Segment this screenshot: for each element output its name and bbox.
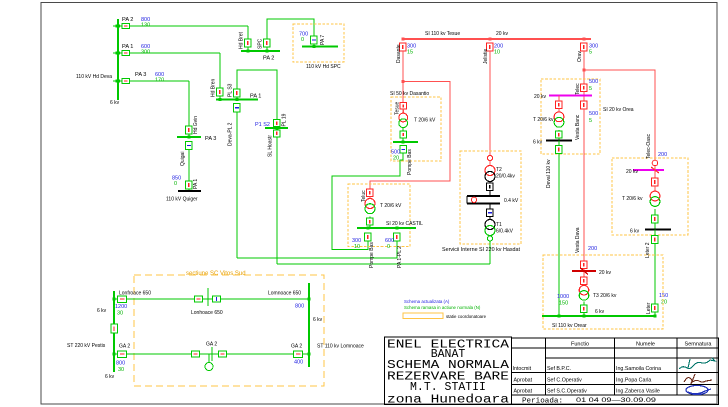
breaker Lonfroace left xyxy=(118,296,127,303)
svg-text:PA 1: PA 1 xyxy=(193,179,199,189)
breaker under transformer xyxy=(402,128,404,131)
svg-text:Ing.Zaberca Vasile: Ing.Zaberca Vasile xyxy=(616,389,660,395)
svg-text:SI 110 kv Orear: SI 110 kv Orear xyxy=(552,323,587,329)
signature Popa (brown) xyxy=(684,374,712,384)
red dash in breaker Lonfroace left xyxy=(120,298,125,300)
red dash in breaker SL Hoastr xyxy=(276,132,278,136)
wire GA 2 line xyxy=(114,353,309,355)
blue dash in breaker Lonhoace mid-right xyxy=(216,297,218,301)
transformer T1 6/0.4 xyxy=(485,220,495,230)
wire breaker to 20kv bus xyxy=(583,92,585,102)
bar 6kv Dasantio xyxy=(393,141,418,143)
wire PA3 branch xyxy=(113,80,189,82)
blue dash in breaker Deva-PL 2 xyxy=(235,107,239,109)
transformer T2 20/0.4 xyxy=(489,161,491,166)
svg-text:20: 20 xyxy=(661,300,667,306)
svg-text:T3 20/6 kv: T3 20/6 kv xyxy=(593,293,617,299)
red dash in breaker Dasante xyxy=(402,45,404,49)
red dash in breaker GA2 mid-right xyxy=(221,353,225,355)
svg-text:30: 30 xyxy=(117,310,123,316)
breaker Deval xyxy=(556,146,563,154)
svg-text:Aprobat: Aprobat xyxy=(514,389,533,395)
svg-text:Tesue: Tesue xyxy=(395,101,401,115)
breaker Orea xyxy=(581,43,588,51)
breaker Lonhoace mid-right xyxy=(213,296,221,302)
bar 110 kV Quiger (black) xyxy=(178,190,201,192)
svg-text:Telec: Telec xyxy=(575,83,581,95)
red dash in breaker Hd Bret xyxy=(247,41,249,45)
svg-text:T 20/6 kv: T 20/6 kv xyxy=(622,196,643,202)
svg-text:PA 7: PA 7 xyxy=(320,35,326,45)
blue dash in breaker Quigai xyxy=(187,145,191,147)
breaker T Orea xyxy=(556,101,563,109)
svg-text:400: 400 xyxy=(294,360,303,366)
red dash in breaker left bus xyxy=(113,327,115,332)
transformer T 20/6 Orea xyxy=(558,109,560,113)
wire SPC riser + top link to SPC station xyxy=(267,19,314,39)
svg-text:20: 20 xyxy=(393,156,399,162)
bar 0.4 kV (black, drawout) xyxy=(467,195,500,197)
svg-text:6 kv: 6 kv xyxy=(595,309,605,315)
wire SL Hoastr breaker/bar xyxy=(274,120,281,127)
table verticals xyxy=(545,338,547,395)
svg-text:Deva-PL 2: Deva-PL 2 xyxy=(228,122,234,146)
transformer T 20/6 Dasantio xyxy=(402,109,404,114)
svg-text:GA 2: GA 2 xyxy=(206,342,217,348)
breaker PA 1-PL 2 xyxy=(394,233,401,241)
svg-text:5: 5 xyxy=(589,86,592,92)
svg-text:P1 S2: P1 S2 xyxy=(255,122,270,128)
node branch 81.5 xyxy=(402,80,405,83)
svg-text:5: 5 xyxy=(589,118,592,124)
breaker Lonhoace mid-left xyxy=(195,296,203,302)
red dash in breaker PL 19 xyxy=(276,121,278,125)
node Orea xyxy=(583,38,586,41)
svg-text:30: 30 xyxy=(118,367,124,373)
breaker Teluc xyxy=(367,189,374,197)
breaker PA1 xyxy=(122,50,130,55)
wire Dasante drop + branch to CASTIL xyxy=(402,51,404,103)
svg-text:5: 5 xyxy=(589,50,592,56)
wire T1 down to line B xyxy=(489,241,491,264)
svg-text:170: 170 xyxy=(155,78,164,84)
svg-text:300: 300 xyxy=(141,50,150,56)
node PA1 bar xyxy=(219,98,222,101)
node PA3 bar xyxy=(188,136,191,139)
svg-text:SI 110 kv Tesue: SI 110 kv Tesue xyxy=(425,31,460,37)
breaker PA2 xyxy=(122,23,130,28)
svg-text:01 04 09—30.09.09: 01 04 09—30.09.09 xyxy=(576,398,657,404)
bus 20 kv Orea (magenta) xyxy=(549,95,592,97)
svg-text:sectiune SC Vitos Sud: sectiune SC Vitos Sud xyxy=(186,271,246,277)
node PA1 on bus xyxy=(116,52,121,55)
svg-text:Hd Bren: Hd Bren xyxy=(211,78,217,97)
wire breaker-to-bar stubs xyxy=(247,47,249,51)
breaker T Oasc xyxy=(652,178,659,186)
svg-text:6 kv: 6 kv xyxy=(110,100,120,106)
bus 20 kv Oasc (magenta) xyxy=(633,169,664,171)
breaker Hd Gvin xyxy=(186,126,193,134)
red dash in breaker Hasdat xyxy=(489,45,491,49)
svg-text:PA 1: PA 1 xyxy=(250,94,261,100)
breaker above T1 (black) xyxy=(489,204,491,210)
svg-text:150: 150 xyxy=(559,301,568,307)
svg-text:T 20/6 kV: T 20/6 kV xyxy=(414,118,436,124)
svg-text:ST 220 kV Pestis: ST 220 kV Pestis xyxy=(67,343,106,349)
svg-text:Hd Bret: Hd Bret xyxy=(239,31,245,49)
svg-text:800: 800 xyxy=(295,304,304,310)
svg-text:6/0.4kV: 6/0.4kV xyxy=(496,229,514,235)
wire line SL Hoastr to Hasdat T1 xyxy=(277,263,490,265)
svg-text:PA 2: PA 2 xyxy=(122,17,133,23)
breaker PL S3 xyxy=(234,89,241,97)
breaker PA3 xyxy=(122,78,130,83)
breaker SPC xyxy=(264,39,271,47)
breaker SL Hoastr lower xyxy=(274,130,281,137)
svg-text:SI 20 kv CASTIL: SI 20 kv CASTIL xyxy=(386,221,423,227)
svg-text:T2: T2 xyxy=(496,167,502,173)
svg-text:200: 200 xyxy=(658,152,667,158)
svg-text:500: 500 xyxy=(589,111,598,117)
breaker Hasdat xyxy=(487,43,494,51)
svg-text:Telec-Oasc: Telec-Oasc xyxy=(646,133,652,159)
svg-text:1000: 1000 xyxy=(557,294,569,300)
transformer T 20/6 CASTIL xyxy=(369,197,371,199)
svg-text:500: 500 xyxy=(589,79,598,85)
breaker GA2 mid-left xyxy=(192,351,200,357)
svg-text:GA 2: GA 2 xyxy=(291,344,302,350)
breaker Tesue xyxy=(400,103,407,110)
svg-text:200: 200 xyxy=(588,246,597,252)
disconnect tick top xyxy=(207,288,209,306)
bar PA 1 xyxy=(216,98,258,100)
breaker Hd Bret xyxy=(245,39,252,47)
disconnect bar 20 kv xyxy=(583,269,585,278)
svg-text:130: 130 xyxy=(141,23,150,29)
svg-text:110 kV Hd Deva: 110 kV Hd Deva xyxy=(76,74,112,80)
breaker Telec (on Orea drop) xyxy=(581,84,588,92)
breaker T3 upper xyxy=(581,261,588,269)
bus Lomnoace right xyxy=(308,283,310,367)
transformer T3 20/6 xyxy=(583,284,585,287)
wire Deval down to Orastie bar xyxy=(558,154,560,317)
svg-text:Leter: Leter xyxy=(646,302,652,314)
svg-text:Vesta Dava: Vesta Dava xyxy=(575,227,581,253)
transformer T 20/6 Oasc xyxy=(654,186,656,191)
wire Orea drop xyxy=(583,51,585,84)
svg-text:PA 1-PL 2: PA 1-PL 2 xyxy=(397,246,403,268)
breaker under T3 xyxy=(583,302,585,306)
red dash in breaker PL S3 xyxy=(236,91,238,95)
svg-text:GA 2: GA 2 xyxy=(119,344,130,350)
node marks Vitos xyxy=(113,298,116,301)
breaker Dasante xyxy=(400,43,407,51)
breaker Pompe Bas xyxy=(400,146,407,154)
wire Hasdat drop xyxy=(489,51,491,155)
blue dash in breaker PA 7 xyxy=(312,39,316,41)
svg-text:10: 10 xyxy=(494,50,500,56)
svg-text:20 kv: 20 kv xyxy=(626,169,638,175)
red dash in breaker GA2 left xyxy=(120,353,125,355)
red dash in breaker PA3 xyxy=(124,80,127,82)
svg-text:Leter 2: Leter 2 xyxy=(645,242,651,258)
wire Lonfroace 650 line xyxy=(114,298,309,300)
wire SL Hoastr down to line B xyxy=(276,137,278,264)
red dash in breaker PA1 lower xyxy=(188,183,190,187)
red dash in breaker Hd Bren xyxy=(219,90,221,94)
red dash in breaker GA2 right xyxy=(296,353,301,355)
red dash in breaker Lonhoace mid-left xyxy=(197,298,201,300)
breaker Leter at Orastie xyxy=(652,304,659,312)
svg-text:PL S3: PL S3 xyxy=(228,83,234,97)
svg-text:Pompe Bas: Pompe Bas xyxy=(407,149,413,175)
svg-text:6 kv: 6 kv xyxy=(97,308,107,314)
table outline xyxy=(512,338,719,405)
wire from bus to PA1 bar xyxy=(219,53,221,88)
signature Samoila (teal) xyxy=(679,358,715,369)
svg-text:0.4 kV: 0.4 kV xyxy=(504,198,519,204)
svg-text:Sef S.C.Operativ: Sef S.C.Operativ xyxy=(547,389,587,395)
node T3 on bar xyxy=(583,315,586,318)
svg-text:15: 15 xyxy=(407,50,413,56)
table horizontals xyxy=(512,347,719,349)
signature Zaberca (blue) xyxy=(686,386,708,395)
wire PA1 branch xyxy=(113,52,220,54)
wire down to Quiger xyxy=(188,150,190,182)
breaker PA 1 lower xyxy=(186,181,193,189)
bar 6 kv Orea (black) xyxy=(546,139,572,141)
node Dasante xyxy=(402,38,405,41)
bar PA 2 xyxy=(241,50,280,52)
svg-text:Quigai: Quigai xyxy=(180,152,186,166)
node branch 70 xyxy=(583,69,586,72)
svg-text:Semnatura: Semnatura xyxy=(685,342,713,348)
svg-text:PA 3: PA 3 xyxy=(135,72,146,78)
bus 110kV Deva xyxy=(117,19,119,100)
svg-text:Lomnoace 650: Lomnoace 650 xyxy=(268,291,301,297)
svg-text:20 kv: 20 kv xyxy=(599,270,611,276)
svg-text:6 kv: 6 kv xyxy=(105,374,115,380)
svg-text:Dasante: Dasante xyxy=(396,44,402,63)
svg-text:0: 0 xyxy=(301,37,304,43)
svg-text:800: 800 xyxy=(116,361,125,367)
svg-text:T 20/6 kV: T 20/6 kV xyxy=(380,203,402,209)
wire PA3 down xyxy=(188,81,190,126)
bar SL Hoastr xyxy=(265,127,288,129)
red dash in breaker PA1 xyxy=(124,52,127,54)
svg-text:Schema actualizata (A): Schema actualizata (A) xyxy=(404,299,450,304)
red dash in breaker GA2 mid-left xyxy=(194,353,198,355)
bus Pestis left xyxy=(113,291,115,372)
svg-text:6 kv: 6 kv xyxy=(533,140,543,146)
bar SI 110 kv Orastie (green) xyxy=(542,315,656,317)
node Leter on bar xyxy=(654,315,657,318)
svg-text:Pompe Bas: Pompe Bas xyxy=(369,242,375,268)
svg-text:Numele: Numele xyxy=(636,342,655,348)
svg-text:1200: 1200 xyxy=(115,304,127,310)
svg-text:statie coordonatoare: statie coordonatoare xyxy=(446,314,487,319)
breaker under Orea transformer xyxy=(558,130,560,131)
svg-text:0: 0 xyxy=(174,181,177,187)
breaker Vesta Banc (below magenta bus) xyxy=(581,101,588,109)
svg-text:Sef B.P.C.: Sef B.P.C. xyxy=(547,366,571,372)
breaker under T2 (black) xyxy=(489,182,491,184)
svg-text:Sef C.Operativ: Sef C.Operativ xyxy=(547,378,582,384)
red dash in breaker SPC xyxy=(266,41,268,45)
title cell xyxy=(385,337,512,405)
svg-text:PA 1: PA 1 xyxy=(122,44,133,50)
svg-text:PA 3: PA 3 xyxy=(205,136,216,142)
wire Vesta down to Orastie xyxy=(583,109,585,261)
svg-text:Functio: Functio xyxy=(571,342,589,348)
svg-text:Lonhoace 650: Lonhoace 650 xyxy=(191,310,223,316)
svg-text:Vesta Banc: Vesta Banc xyxy=(575,114,581,140)
svg-text:Intocmit: Intocmit xyxy=(513,366,532,372)
breaker on left bus xyxy=(111,324,118,333)
wire PA2 branch xyxy=(113,25,248,27)
breaker under CASTIL transformer xyxy=(369,217,371,219)
svg-text:10: 10 xyxy=(354,244,360,250)
svg-text:SPC: SPC xyxy=(258,38,264,49)
wire Pompe Bas down-left to CASTIL xyxy=(332,153,403,249)
svg-text:SI 50 kv Dasantio: SI 50 kv Dasantio xyxy=(390,91,429,97)
svg-text:110 kV Hd SPC: 110 kV Hd SPC xyxy=(306,64,341,70)
svg-text:Schema ramasa in actiune norma: Schema ramasa in actiune normala (N) xyxy=(404,305,481,310)
node on bar PA2 xyxy=(247,50,250,53)
breaker Quigai xyxy=(186,142,193,150)
wire Leter down to Orastie bar xyxy=(654,244,656,317)
svg-text:zona Hunedoara: zona Hunedoara xyxy=(387,394,509,407)
svg-text:Perioada:: Perioada: xyxy=(522,397,563,405)
svg-text:6 kv: 6 kv xyxy=(313,317,323,323)
svg-text:PA 2: PA 2 xyxy=(263,56,274,62)
wire PA2 drop xyxy=(247,26,249,39)
svg-text:Ing.Samoila Corina: Ing.Samoila Corina xyxy=(616,366,661,372)
svg-text:SI 20 kv Orea: SI 20 kv Orea xyxy=(603,107,634,113)
breaker GA2 left xyxy=(118,351,127,358)
node Hasdat xyxy=(489,38,492,41)
svg-text:Orav: Orav xyxy=(577,51,583,62)
svg-text:Jelistie: Jelistie xyxy=(483,48,489,64)
svg-text:ST 110 kv Lomnoace: ST 110 kv Lomnoace xyxy=(317,344,364,350)
wire line Deva-PL2 to CASTIL PA1-PL2 breaker xyxy=(237,241,397,258)
svg-text:T1: T1 xyxy=(496,222,502,228)
svg-text:PL 19: PL 19 xyxy=(282,113,288,126)
breaker Hd Bren xyxy=(217,88,224,96)
wire branch to Telec-Oasc xyxy=(584,70,655,160)
breaker GA2 right xyxy=(294,351,303,358)
svg-text:0: 0 xyxy=(387,244,390,250)
bar PA 3 xyxy=(177,136,201,138)
red dash in breaker PA2 xyxy=(124,25,127,27)
node PA3 on bus xyxy=(116,80,121,83)
earthing stub + circle xyxy=(208,354,210,362)
svg-text:20 kv: 20 kv xyxy=(534,94,546,100)
legend box xyxy=(403,313,443,319)
red dash in breaker Hd Gvin xyxy=(188,128,190,132)
bar Hd SPC xyxy=(302,45,338,47)
svg-text:Aprobat: Aprobat xyxy=(514,378,533,384)
svg-text:Servicii Interne SI 220 kv Has: Servicii Interne SI 220 kv Hasdat xyxy=(442,247,521,253)
fuse symbol red xyxy=(487,155,492,160)
fuse symbol green xyxy=(487,236,492,241)
wire Deva-PL 2 down xyxy=(236,112,238,258)
node PA2 on bus xyxy=(116,25,121,28)
svg-text:20 kv: 20 kv xyxy=(496,31,508,37)
tap mark xyxy=(651,167,659,173)
breaker GA2 mid-right xyxy=(219,351,227,357)
svg-text:Hd Gvin: Hd Gvin xyxy=(193,116,199,134)
fuse symbol red xyxy=(652,160,658,166)
node Deval on bar xyxy=(558,315,561,318)
breaker Pompe Bas CASTIL xyxy=(365,233,372,241)
red dash in breaker Orea xyxy=(583,45,585,49)
wire П link PA1 to SL Hoastr xyxy=(237,70,277,120)
svg-text:6 kv: 6 kv xyxy=(630,229,640,235)
svg-text:110 kV Quiger: 110 kV Quiger xyxy=(166,197,198,203)
svg-text:Deval 110 kv: Deval 110 kv xyxy=(546,159,552,188)
bar 6 kv Oasc (black) xyxy=(645,228,671,230)
svg-text:20/0.4kv: 20/0.4kv xyxy=(496,174,515,180)
bus 110kv Tesue xyxy=(402,38,591,40)
svg-text:T 20/6 kv: T 20/6 kv xyxy=(533,117,554,123)
breaker Deva-PL 2 xyxy=(234,104,241,113)
disconnect tick bottom xyxy=(211,347,213,361)
breaker PA 7 xyxy=(311,36,318,44)
bar 6kv CASTIL xyxy=(357,227,416,229)
breaker T3 lower xyxy=(581,277,588,285)
breaker Leter 2 xyxy=(652,236,659,244)
svg-text:Lonfroace 650: Lonfroace 650 xyxy=(119,291,151,297)
svg-text:Ing.Popa Carla: Ing.Popa Carla xyxy=(616,378,651,384)
breaker under Oasc transformer xyxy=(654,209,656,215)
svg-text:M.T. STATII: M.T. STATII xyxy=(410,381,486,394)
svg-text:SL Hoastr: SL Hoastr xyxy=(268,135,274,157)
